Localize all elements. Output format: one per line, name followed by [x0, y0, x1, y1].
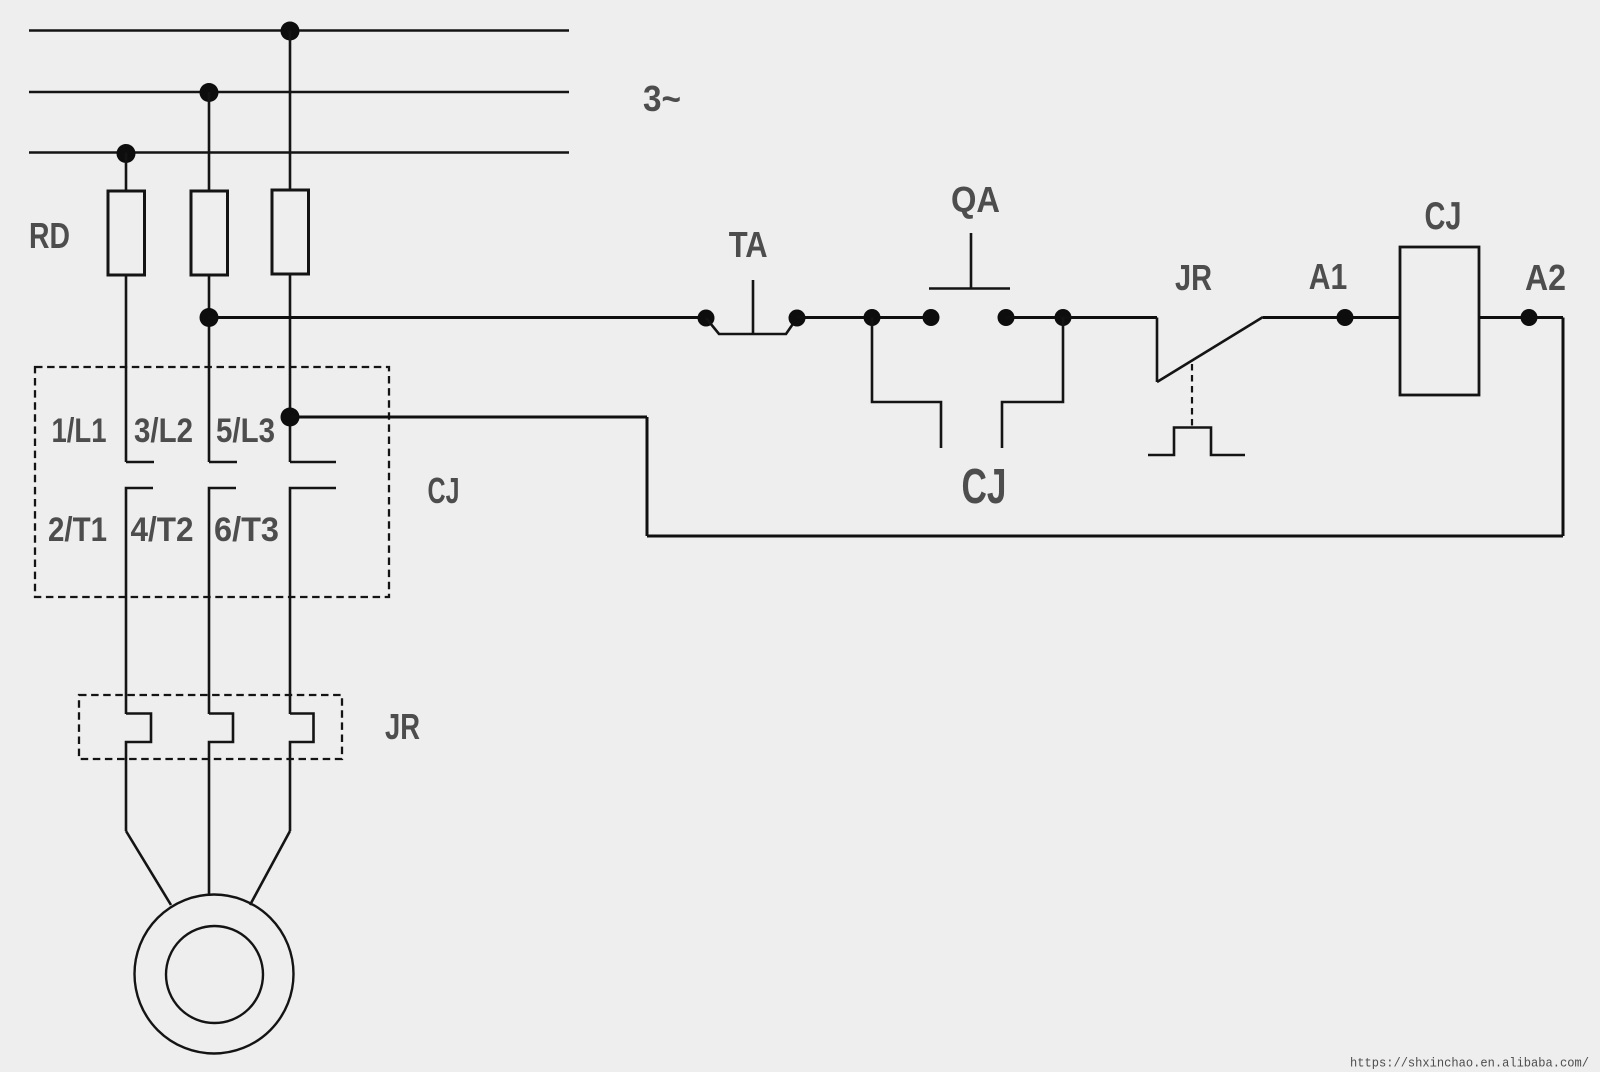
node junction on L3 [117, 144, 136, 163]
svg-text:CJ: CJ [1425, 195, 1462, 238]
svg-text:JR: JR [385, 706, 420, 747]
wire drop from L3 to fuse 1 [125, 153, 128, 193]
svg-text:CJ: CJ [428, 470, 460, 511]
node CJ aux right tap [1055, 309, 1072, 326]
wire L1 phase line [29, 29, 569, 31]
svg-text:3/L2: 3/L2 [134, 412, 193, 450]
pushbutton QA bridge bar [929, 287, 1010, 290]
node junction on L1 [281, 22, 300, 41]
CJ main contact 1 [126, 461, 154, 464]
svg-text:5/L3: 5/L3 [216, 412, 275, 450]
node TA right terminal [789, 310, 806, 327]
node CJ aux left tap [864, 309, 881, 326]
relay JR NC contact blade [1157, 317, 1263, 382]
relay JR trip linkage dashed [1191, 364, 1193, 427]
fuse RD 2 [191, 191, 228, 275]
contactor CJ main contacts dashed box [35, 367, 389, 597]
pushbutton QA stem [970, 233, 973, 289]
wire fuse2 to CJ contact 2 [208, 275, 211, 462]
svg-text:A1: A1 [1309, 256, 1348, 297]
svg-text:RD: RD [29, 215, 70, 256]
JR heater element 1 [126, 714, 151, 832]
wire return left vertical [646, 417, 649, 536]
JR heater element 3 [290, 714, 314, 832]
node QA right terminal [998, 309, 1015, 326]
svg-text:CJ: CJ [962, 460, 1007, 514]
fuse RD 1 [108, 191, 145, 275]
node TA left terminal [698, 310, 715, 327]
svg-text:3~: 3~ [643, 78, 681, 119]
wire L3 phase line [29, 151, 569, 153]
CJ main contact 3 [290, 461, 336, 464]
motor M inner circle [166, 926, 263, 1023]
wire drop from L2 to fuse 2 [208, 92, 211, 192]
node control return tap on L3 branch [281, 408, 300, 427]
svg-text:6/T3: 6/T3 [214, 511, 279, 549]
wire control rail segment from L2 tap to TA [209, 316, 706, 319]
wire motor lead right diagonal [250, 831, 290, 905]
wire fuse3 to CJ contact 3 [289, 274, 292, 462]
svg-text:2/T1: 2/T1 [48, 511, 107, 549]
wire drop from L1 to fuse 3 [289, 31, 292, 192]
node control tap on L2 branch [200, 308, 219, 327]
fuse RD 3 [272, 190, 309, 274]
wire control rail QA to JR contact [1006, 316, 1157, 319]
wire return to L3 tap [290, 416, 647, 419]
wire fuse1 to CJ contact 1 [125, 275, 128, 462]
relay JR thermal element symbol [1148, 428, 1245, 456]
svg-text:TA: TA [729, 224, 768, 265]
node A2 terminal [1521, 309, 1538, 326]
switch TA blade [706, 318, 797, 334]
wire control rail JR to coil [1263, 316, 1400, 319]
svg-text:JR: JR [1175, 257, 1212, 298]
node A1 terminal [1337, 309, 1354, 326]
wire L2 phase line [29, 91, 569, 93]
svg-text:A2: A2 [1525, 257, 1566, 298]
svg-text:https://shxinchao.en.alibaba.c: https://shxinchao.en.alibaba.com/ [1350, 1056, 1589, 1071]
wire return bottom horizontal [647, 535, 1563, 538]
switch TA actuator stem [752, 280, 755, 334]
svg-text:4/T2: 4/T2 [131, 511, 194, 549]
relay JR NC contact drop [1156, 318, 1159, 383]
wire motor lead left diagonal [126, 831, 171, 905]
thermal relay JR dashed box [79, 695, 342, 759]
wire coil to A2 [1479, 316, 1563, 319]
JR heater element 2 [209, 714, 233, 897]
wire control rail TA to QA [797, 316, 931, 319]
svg-text:1/L1: 1/L1 [52, 412, 107, 450]
motor M outer circle [135, 895, 294, 1054]
node QA left terminal [923, 309, 940, 326]
CJ auxiliary contact left lead [872, 318, 941, 449]
CJ auxiliary contact right lead [1002, 318, 1063, 449]
contactor coil CJ [1400, 247, 1479, 395]
svg-text:QA: QA [951, 179, 1000, 220]
wire return right vertical [1562, 318, 1565, 537]
node junction on L2 [200, 83, 219, 102]
CJ main contact 2 [209, 461, 237, 464]
